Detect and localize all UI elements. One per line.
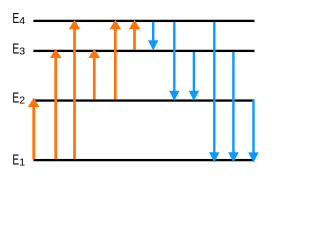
svg-text:1: 1 xyxy=(19,156,25,168)
svg-text:4: 4 xyxy=(19,15,25,27)
svg-text:E: E xyxy=(12,152,19,168)
svg-text:E: E xyxy=(12,41,19,57)
svg-text:E: E xyxy=(12,10,19,26)
svg-text:2: 2 xyxy=(19,94,25,106)
svg-text:3: 3 xyxy=(19,45,25,57)
svg-text:E: E xyxy=(12,90,19,106)
